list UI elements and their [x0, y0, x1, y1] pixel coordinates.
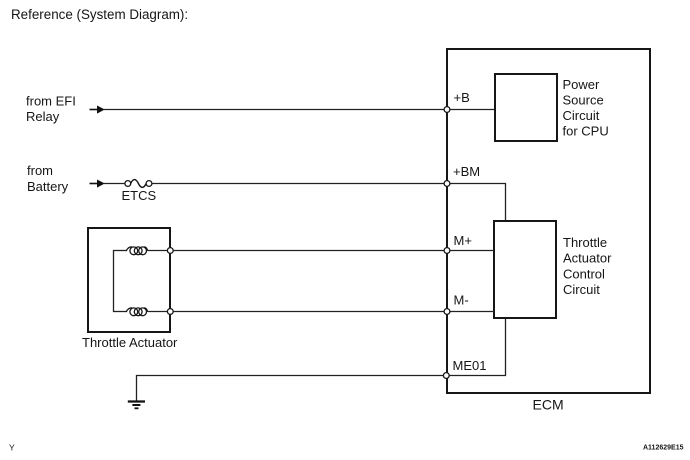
node +BM: [444, 181, 450, 187]
wire M- to control box: [450, 311, 494, 313]
wire to coil M+: [113, 250, 127, 252]
wire coil to node M-: [148, 311, 168, 313]
wire M+ to control box: [450, 250, 494, 252]
wire actuator to ECM M+: [173, 250, 445, 252]
wire actuator to ECM M-: [173, 311, 445, 313]
node on actuator (M-): [167, 309, 173, 315]
label Power Source Circuit for CPU: [563, 77, 609, 139]
svg-text:Throttle: Throttle: [563, 235, 607, 250]
wire ME01 to control box bottom: [449, 318, 505, 376]
svg-text:Y: Y: [9, 443, 15, 453]
wire to coil M-: [113, 311, 127, 313]
svg-text:ETCS: ETCS: [122, 188, 157, 203]
svg-text:+BM: +BM: [453, 164, 480, 179]
svg-text:Reference (System Diagram):: Reference (System Diagram):: [11, 7, 188, 22]
svg-text:M-: M-: [454, 293, 469, 308]
node +B: [444, 107, 450, 113]
svg-text:M+: M+: [454, 233, 472, 248]
coil L2 (M- winding): [126, 308, 148, 316]
label: from Battery: [27, 163, 69, 194]
svg-text:A112629E15: A112629E15: [643, 444, 684, 451]
ground wire horizontal ME01: [137, 375, 445, 377]
svg-text:Battery: Battery: [27, 179, 69, 194]
wire inner vertical (coil common): [113, 251, 115, 312]
node ME01: [443, 373, 449, 379]
svg-text:Actuator: Actuator: [563, 251, 612, 266]
svg-text:ECM: ECM: [533, 397, 564, 413]
fuse ETCS (fusible link symbol): [125, 180, 152, 188]
svg-text:for CPU: for CPU: [563, 124, 609, 139]
svg-text:from: from: [27, 163, 53, 178]
node on actuator (M+): [167, 248, 173, 254]
node M+: [444, 248, 450, 254]
svg-text:Power: Power: [563, 77, 601, 92]
svg-text:+B: +B: [454, 90, 470, 105]
wire battery to fuse: [104, 183, 125, 185]
svg-text:Circuit: Circuit: [563, 282, 600, 297]
wire fuse to ECM +BM: [152, 183, 445, 185]
coil L1 (M+ winding): [126, 247, 148, 255]
node M-: [444, 309, 450, 315]
svg-text:Source: Source: [563, 93, 604, 108]
ECM box: [447, 49, 650, 393]
throttle actuator control circuit box: [494, 221, 556, 318]
ground symbol: [128, 402, 145, 409]
wire coil to node M+: [148, 250, 168, 252]
power source circuit box: [495, 74, 557, 141]
wire +BM to throttle control box: [450, 184, 506, 222]
svg-text:ME01: ME01: [453, 358, 487, 373]
wire +B from EFI relay to ECM: [104, 109, 445, 111]
throttle actuator box: [88, 228, 170, 332]
svg-text:Circuit: Circuit: [563, 108, 600, 123]
svg-text:Control: Control: [563, 266, 605, 281]
label: from EFI Relay: [26, 94, 76, 125]
svg-text:Throttle Actuator: Throttle Actuator: [82, 335, 178, 350]
svg-text:Relay: Relay: [26, 109, 60, 124]
ground wire vertical: [136, 375, 138, 402]
arrow from EFI Relay: [90, 106, 105, 114]
label Throttle Actuator Control Circuit: [563, 235, 612, 297]
arrow from Battery: [90, 180, 105, 188]
svg-text:from EFI: from EFI: [26, 94, 76, 109]
wire +B to power source box: [450, 109, 495, 111]
